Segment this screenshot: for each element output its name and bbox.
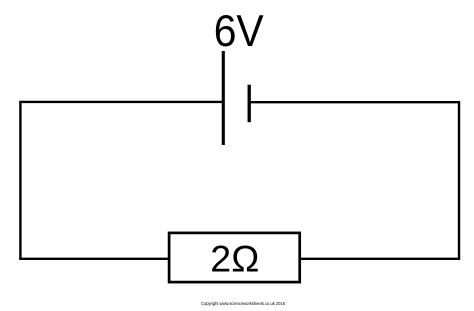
svg-text:6V: 6V — [214, 7, 264, 56]
battery cell V1 short plate (-) — [248, 85, 251, 123]
wire top-left + left side + bottom-left (battery to resistor, left loop) — [20, 102, 222, 259]
battery cell V1 long plate (+) — [222, 51, 225, 145]
resistor R1 box — [169, 233, 300, 282]
svg-text:2Ω: 2Ω — [210, 239, 259, 280]
wire top-right + right side + bottom-right (battery to resistor, right loop) — [250, 102, 460, 259]
svg-text:Copyright www.scienceworksheet: Copyright www.scienceworksheets.co.uk 20… — [201, 301, 285, 306]
